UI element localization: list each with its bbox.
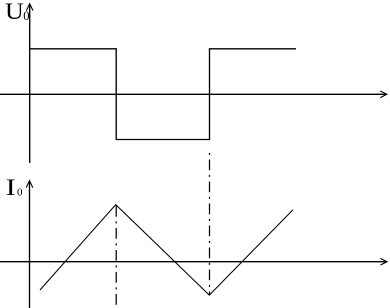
svg-text:0: 0 xyxy=(17,186,23,198)
dash-dot marker line at second transition x=209 xyxy=(209,153,211,295)
waveform I0 triangle wave xyxy=(40,205,293,296)
label U0 xyxy=(5,0,29,25)
waveform U0 square wave xyxy=(30,49,296,140)
svg-text:I: I xyxy=(6,175,16,201)
label I0 xyxy=(6,175,23,201)
axis Y bottom (I0 axis) xyxy=(26,181,33,308)
axis X top (U0 time axis) xyxy=(0,91,387,98)
svg-text:U: U xyxy=(5,0,24,25)
svg-text:0: 0 xyxy=(23,9,29,23)
axis X bottom (I0 time axis) xyxy=(0,258,387,265)
dash-dot marker line at first transition x=116 xyxy=(115,206,117,308)
axis Y top (U0 axis) xyxy=(26,4,33,163)
